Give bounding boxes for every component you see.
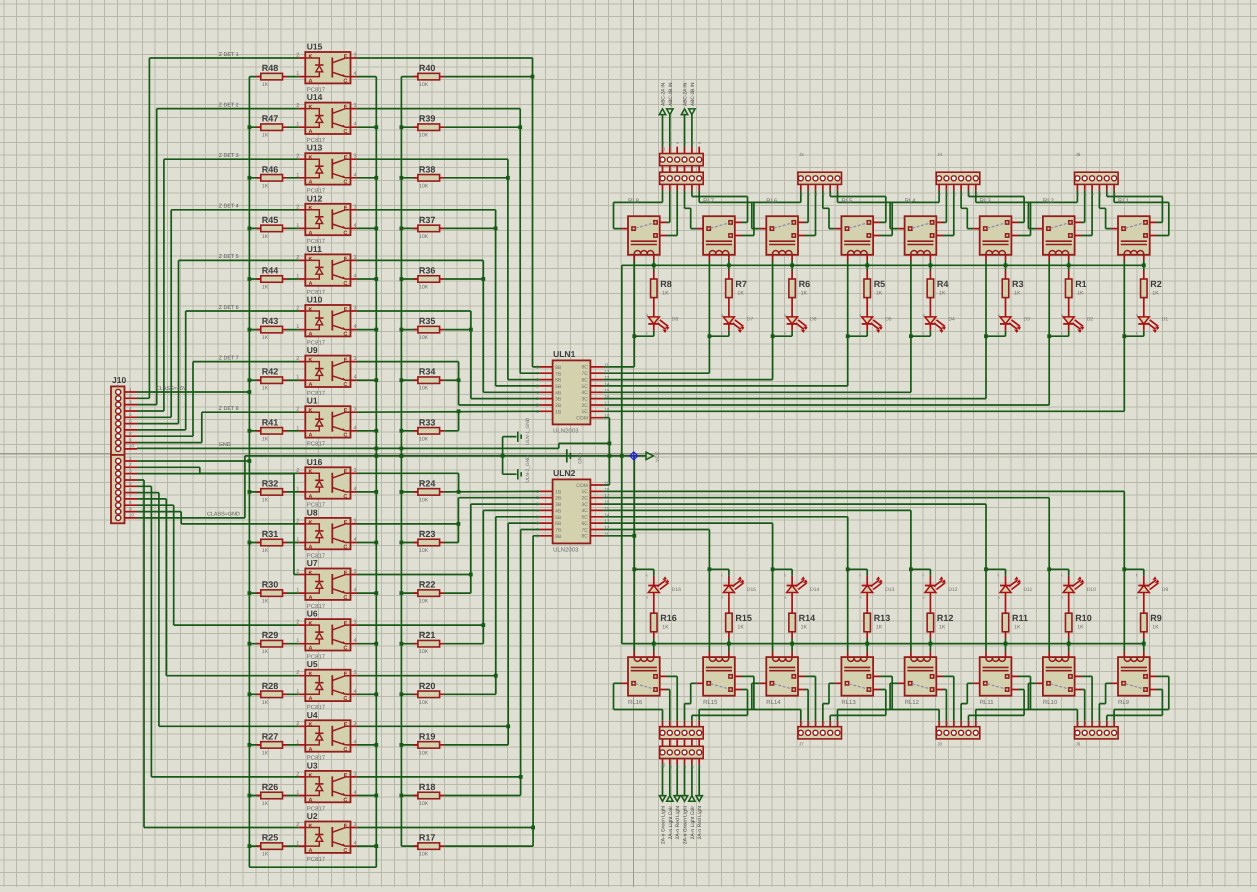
svg-text:6B: 6B [555,521,562,527]
svg-text:R26: R26 [262,782,279,792]
svg-text:R6: R6 [799,279,811,289]
svg-text:3: 3 [354,407,357,413]
svg-text:4: 4 [354,790,357,796]
svg-text:R30: R30 [262,580,279,590]
svg-text:10K: 10K [419,386,429,392]
svg-text:3: 3 [354,306,357,312]
svg-text:1: 1 [296,638,299,644]
svg-text:1K: 1K [662,291,669,297]
svg-text:ULN-2_GND: ULN-2_GND [525,455,531,483]
svg-text:k: k [859,573,861,578]
svg-text:C: C [343,544,347,550]
svg-text:GND: GND [219,442,231,448]
svg-text:10K: 10K [419,234,429,240]
svg-text:1K: 1K [262,335,269,341]
svg-text:RL10: RL10 [1043,699,1058,706]
svg-text:A: A [309,382,313,388]
svg-text:2B: 2B [555,403,562,409]
svg-text:R15: R15 [735,613,752,623]
svg-text:2: 2 [296,306,299,312]
svg-text:R41: R41 [262,417,279,427]
svg-text:D8: D8 [672,317,679,323]
svg-text:3: 3 [354,721,357,727]
svg-text:3B: 3B [555,502,562,508]
svg-text:1K: 1K [262,700,269,706]
svg-text:1K: 1K [1077,625,1084,631]
svg-text:C: C [343,848,347,854]
svg-text:10K: 10K [419,285,429,291]
svg-text:13: 13 [604,519,609,524]
svg-text:E: E [344,722,348,728]
svg-text:1: 1 [296,274,299,280]
svg-text:RL12: RL12 [905,699,920,706]
svg-text:2: 2 [296,670,299,676]
svg-text:U13: U13 [307,143,323,153]
svg-text:6B: 6B [555,378,562,384]
svg-text:E: E [344,358,348,364]
svg-text:11: 11 [604,362,609,367]
svg-text:14: 14 [604,381,609,386]
svg-text:1K: 1K [1014,291,1021,297]
svg-text:R5: R5 [874,279,886,289]
svg-text:A: A [309,696,313,702]
svg-text:C: C [343,79,347,85]
svg-text:1: 1 [296,223,299,229]
svg-text:k: k [646,330,648,335]
svg-text:R37: R37 [419,215,436,225]
svg-text:R28: R28 [262,681,279,691]
svg-text:5B: 5B [555,515,562,521]
svg-text:2A-n Green Light: 2A-n Green Light [683,805,689,844]
svg-text:E: E [344,54,348,60]
svg-text:R43: R43 [262,316,279,326]
svg-text:4: 4 [354,122,357,128]
svg-text:R14: R14 [799,613,816,623]
svg-text:R18: R18 [419,782,436,792]
svg-text:10K: 10K [419,852,429,858]
svg-text:1K: 1K [876,291,883,297]
svg-text:K: K [309,256,313,262]
svg-text:U3: U3 [307,760,318,770]
svg-text:1: 1 [296,537,299,543]
svg-text:D6: D6 [810,317,817,323]
svg-text:E: E [344,621,348,627]
svg-text:10K: 10K [419,599,429,605]
svg-text:E: E [344,105,348,111]
svg-text:C: C [343,230,347,236]
svg-text:4: 4 [129,475,132,480]
svg-text:1K: 1K [262,183,269,189]
svg-text:2: 2 [296,204,299,210]
svg-text:1K: 1K [801,291,808,297]
svg-text:R48: R48 [262,63,279,73]
svg-text:D12: D12 [948,587,957,593]
svg-text:3: 3 [354,255,357,261]
svg-text:3: 3 [354,822,357,828]
svg-text:10K: 10K [419,548,429,554]
svg-text:ULN2: ULN2 [553,468,575,478]
svg-text:ULN2003: ULN2003 [553,546,579,553]
svg-text:RL15: RL15 [703,699,718,706]
svg-text:3: 3 [354,356,357,362]
svg-text:U15: U15 [307,42,323,52]
svg-text:R38: R38 [419,164,436,174]
svg-text:8: 8 [129,431,132,436]
svg-text:R39: R39 [419,114,436,124]
svg-text:R31: R31 [262,529,279,539]
svg-text:3: 3 [129,399,132,404]
svg-text:R45: R45 [262,215,279,225]
svg-text:k: k [998,330,1000,335]
svg-text:R27: R27 [262,731,279,741]
svg-text:U1: U1 [307,396,318,406]
svg-text:U9: U9 [307,345,318,355]
svg-text:J7: J7 [799,742,804,747]
svg-text:R17: R17 [419,833,436,843]
svg-text:A: A [309,79,313,85]
svg-text:Z DET 5: Z DET 5 [219,254,239,260]
svg-text:Z DET 3: Z DET 3 [219,153,239,159]
svg-text:RL7: RL7 [703,198,715,205]
svg-text:D11: D11 [1024,587,1033,593]
svg-text:U10: U10 [307,295,323,305]
svg-text:Z DET 6: Z DET 6 [219,305,239,311]
svg-text:2A-n Light Colr: 2A-n Light Colr [668,806,674,840]
svg-text:9: 9 [129,437,132,442]
svg-text:18: 18 [604,407,609,412]
svg-text:C: C [343,797,347,803]
svg-text:4: 4 [354,739,357,745]
svg-text:1K: 1K [939,625,946,631]
svg-text:8C: 8C [581,534,588,540]
svg-text:VCC: VCC [655,451,661,462]
svg-text:RL14: RL14 [766,699,781,706]
svg-text:3: 3 [354,204,357,210]
svg-text:R25: R25 [262,833,279,843]
svg-text:3C: 3C [581,502,588,508]
svg-text:1K: 1K [262,750,269,756]
svg-text:1: 1 [296,425,299,431]
svg-text:K: K [309,621,313,627]
svg-text:4: 4 [354,638,357,644]
svg-text:K: K [309,570,313,576]
svg-text:1: 1 [296,172,299,178]
svg-text:CLASS=GND: CLASS=GND [207,512,240,518]
svg-text:4: 4 [354,425,357,431]
svg-text:k: k [646,573,648,578]
svg-text:E: E [344,307,348,313]
svg-text:k: k [859,330,861,335]
svg-text:1: 1 [129,387,132,392]
svg-text:C: C [343,382,347,388]
svg-text:12: 12 [604,369,609,374]
svg-text:2B: 2B [555,496,562,502]
svg-text:3: 3 [129,468,132,473]
svg-text:R47: R47 [262,114,279,124]
svg-text:1K: 1K [737,625,744,631]
svg-text:D15: D15 [747,587,756,593]
svg-text:18: 18 [604,487,609,492]
svg-text:R9: R9 [1150,613,1162,623]
svg-text:R7: R7 [735,279,747,289]
svg-text:1: 1 [296,588,299,594]
svg-text:3: 3 [354,569,357,575]
svg-text:A: A [309,646,313,652]
svg-text:1K: 1K [1077,291,1084,297]
svg-text:C: C [343,595,347,601]
svg-text:3: 3 [354,771,357,777]
svg-text:ABC-2A IN: ABC-2A IN [661,82,667,106]
svg-text:2: 2 [296,53,299,59]
svg-text:D5: D5 [885,317,892,323]
svg-text:U2: U2 [307,811,318,821]
svg-text:1: 1 [296,486,299,492]
svg-text:1: 1 [296,71,299,77]
svg-text:C: C [343,129,347,135]
svg-text:U7: U7 [307,558,318,568]
svg-text:E: E [344,206,348,212]
svg-text:1K: 1K [662,625,669,631]
svg-text:7: 7 [129,425,132,430]
svg-text:3: 3 [354,53,357,59]
svg-text:10K: 10K [419,183,429,189]
svg-text:2: 2 [296,518,299,524]
svg-text:A: A [309,848,313,854]
svg-text:R10: R10 [1075,613,1092,623]
svg-text:10K: 10K [419,649,429,655]
svg-text:2: 2 [296,407,299,413]
svg-text:RL9: RL9 [1118,699,1130,706]
svg-text:k: k [1136,330,1138,335]
svg-text:k: k [922,330,924,335]
svg-text:1B: 1B [555,409,562,415]
svg-text:1: 1 [296,122,299,128]
svg-text:5: 5 [129,412,132,417]
svg-text:R2: R2 [1150,279,1162,289]
svg-text:D9: D9 [1162,587,1169,593]
svg-text:ABC-2B IN: ABC-2B IN [668,82,674,106]
svg-text:4: 4 [354,71,357,77]
svg-text:2A-n Green Light: 2A-n Green Light [661,805,667,844]
svg-text:10K: 10K [419,82,429,88]
svg-text:5B: 5B [555,384,562,390]
svg-text:RL5: RL5 [841,198,853,205]
svg-text:4: 4 [354,274,357,280]
svg-text:4: 4 [354,486,357,492]
svg-text:2: 2 [296,771,299,777]
svg-text:R16: R16 [660,613,677,623]
svg-text:K: K [309,358,313,364]
svg-text:J9: J9 [1076,742,1081,747]
svg-text:1K: 1K [262,649,269,655]
svg-text:K: K [309,722,313,728]
svg-text:A: A [309,747,313,753]
svg-text:1K: 1K [801,625,808,631]
svg-text:1K: 1K [262,497,269,503]
svg-text:RL3: RL3 [980,198,992,205]
svg-text:7B: 7B [555,527,562,533]
svg-text:A: A [309,230,313,236]
svg-text:7: 7 [129,494,132,499]
svg-text:PC817: PC817 [307,441,326,448]
svg-text:13: 13 [604,375,609,380]
svg-text:COM: COM [576,483,588,489]
svg-text:D4: D4 [948,317,955,323]
svg-text:U5: U5 [307,659,318,669]
svg-text:COM: COM [576,416,588,422]
svg-text:U14: U14 [307,92,323,102]
svg-text:RL16: RL16 [628,699,643,706]
svg-text:R12: R12 [937,613,954,623]
svg-text:R32: R32 [262,478,279,488]
svg-text:K: K [309,307,313,313]
svg-text:4: 4 [354,689,357,695]
svg-text:R35: R35 [419,316,436,326]
svg-text:C: C [343,494,347,500]
svg-text:2: 2 [296,468,299,474]
svg-text:8B: 8B [555,534,562,540]
svg-text:R8: R8 [660,279,672,289]
svg-text:9: 9 [129,506,132,511]
svg-text:D7: D7 [747,317,754,323]
svg-text:C: C [343,281,347,287]
svg-text:J5: J5 [661,763,666,768]
svg-text:2: 2 [296,255,299,261]
svg-text:R19: R19 [419,731,436,741]
svg-text:ABC-2A IN: ABC-2A IN [683,82,689,106]
svg-text:3B: 3B [555,397,562,403]
svg-text:K: K [309,773,313,779]
svg-text:E: E [344,155,348,161]
svg-text:K: K [309,105,313,111]
svg-text:4: 4 [129,406,132,411]
svg-text:1K: 1K [262,801,269,807]
svg-text:Z DET 7: Z DET 7 [219,355,239,361]
svg-text:RL1: RL1 [1118,198,1130,205]
svg-text:1K: 1K [262,285,269,291]
svg-text:1: 1 [296,739,299,745]
svg-text:k: k [721,573,723,578]
svg-text:K: K [309,823,313,829]
svg-text:A: A [309,180,313,186]
svg-text:7C: 7C [581,527,588,533]
svg-text:RL4: RL4 [905,198,917,205]
svg-text:A: A [309,281,313,287]
svg-text:3: 3 [354,468,357,474]
svg-text:1K: 1K [262,852,269,858]
svg-text:K: K [309,469,313,475]
svg-text:10: 10 [129,444,135,449]
svg-text:R36: R36 [419,266,436,276]
svg-text:15: 15 [604,506,609,511]
svg-text:J8: J8 [937,742,942,747]
svg-text:4B: 4B [555,508,562,514]
svg-text:k: k [998,573,1000,578]
svg-text:10K: 10K [419,335,429,341]
svg-text:A: A [309,595,313,601]
svg-text:1K: 1K [262,548,269,554]
svg-text:1K: 1K [262,133,269,139]
svg-text:C: C [343,433,347,439]
svg-text:U11: U11 [307,244,322,254]
svg-text:A: A [309,544,313,550]
svg-text:4C: 4C [581,390,588,396]
svg-text:1K: 1K [876,625,883,631]
svg-text:A: A [309,797,313,803]
svg-text:5: 5 [129,481,132,486]
svg-text:2: 2 [129,393,132,398]
svg-text:E: E [344,469,348,475]
svg-text:k: k [1061,330,1063,335]
svg-text:E: E [344,823,348,829]
svg-text:3: 3 [354,620,357,626]
svg-text:10K: 10K [419,497,429,503]
svg-text:Z DET 4: Z DET 4 [219,204,239,210]
svg-text:J5: J5 [1076,152,1081,157]
svg-text:5C: 5C [581,384,588,390]
svg-text:k: k [1136,573,1138,578]
svg-text:J10: J10 [112,375,126,385]
svg-text:10K: 10K [419,750,429,756]
svg-text:17: 17 [604,401,609,406]
svg-text:3: 3 [354,518,357,524]
svg-text:R42: R42 [262,367,279,377]
svg-text:k: k [721,330,723,335]
svg-text:R11: R11 [1012,613,1028,623]
svg-text:R44: R44 [262,266,279,276]
svg-text:8C: 8C [581,365,588,371]
svg-text:1K: 1K [262,599,269,605]
svg-text:ULN1: ULN1 [553,349,575,359]
svg-text:R20: R20 [419,681,436,691]
svg-text:k: k [922,573,924,578]
svg-text:1K: 1K [1014,625,1021,631]
svg-text:4: 4 [354,537,357,543]
svg-text:3: 3 [354,103,357,109]
svg-text:3: 3 [354,154,357,160]
svg-text:1K: 1K [262,82,269,88]
svg-text:J1: J1 [661,147,666,152]
svg-text:E: E [344,672,348,678]
svg-text:ULN-1_GND: ULN-1_GND [525,417,531,445]
svg-text:K: K [309,408,313,414]
svg-text:2: 2 [296,721,299,727]
svg-text:U8: U8 [307,507,318,517]
svg-text:1: 1 [296,375,299,381]
svg-text:k: k [784,573,786,578]
svg-text:2C: 2C [581,403,588,409]
svg-text:4: 4 [354,841,357,847]
svg-text:R29: R29 [262,630,279,640]
svg-text:RL2: RL2 [1043,198,1055,205]
svg-text:1K: 1K [1152,625,1159,631]
svg-text:R1: R1 [1075,279,1087,289]
svg-text:14: 14 [604,512,609,517]
svg-text:D3: D3 [1024,317,1031,323]
svg-text:4: 4 [354,588,357,594]
svg-text:D2: D2 [1087,317,1094,323]
svg-text:U4: U4 [307,710,318,720]
svg-text:10K: 10K [419,700,429,706]
svg-text:12: 12 [604,525,609,530]
svg-text:10: 10 [604,413,609,418]
svg-text:R13: R13 [874,613,891,623]
svg-text:U16: U16 [307,457,323,467]
svg-text:R21: R21 [419,630,436,640]
svg-text:D13: D13 [885,587,894,593]
svg-text:6: 6 [129,487,132,492]
svg-text:4: 4 [354,375,357,381]
